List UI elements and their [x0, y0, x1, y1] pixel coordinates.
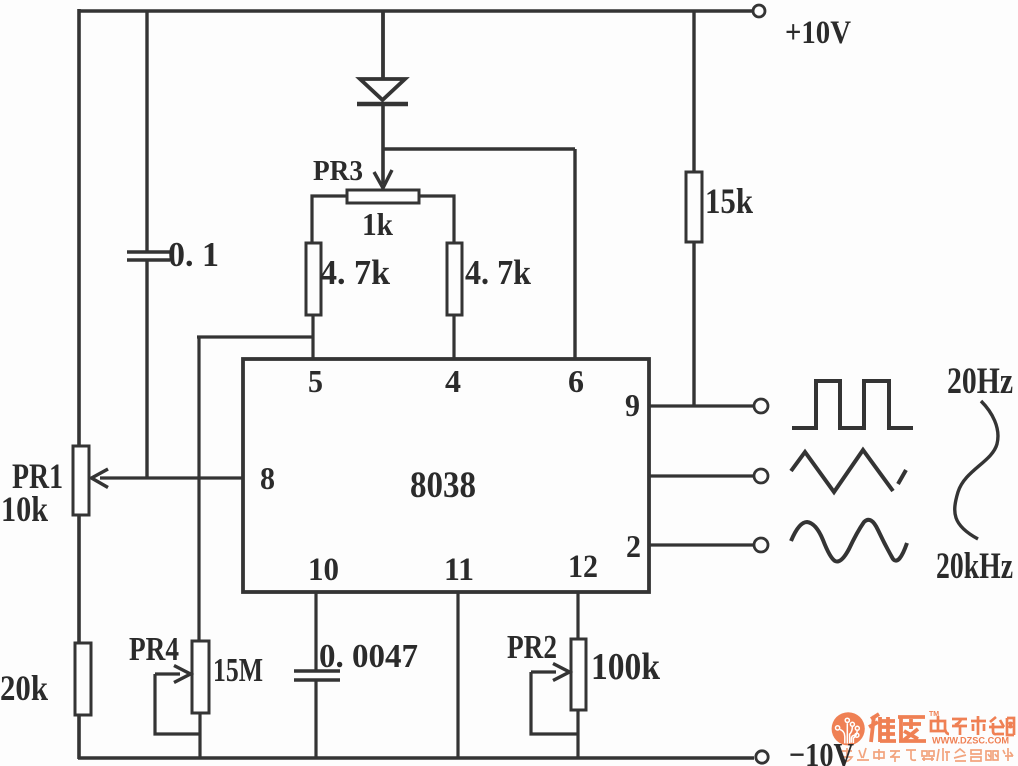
svg-text:8038: 8038: [410, 465, 476, 506]
potentiometer PR4 body: [192, 641, 209, 713]
svg-text:+10V: +10V: [785, 15, 851, 51]
capacitor 0.0047: [294, 671, 340, 680]
svg-text:20Hz: 20Hz: [947, 361, 1013, 402]
watermark 电子市场网 fake glyphs: [931, 716, 1014, 735]
wire pin 2 output: [649, 543, 754, 546]
square wave symbol: [792, 381, 913, 428]
watermark logo circuit traces: [840, 723, 857, 743]
svg-text:11: 11: [444, 552, 474, 588]
wire pin 8 to PR1 wiper: [100, 476, 243, 479]
resistor 4.7k right: [447, 243, 462, 315]
watermark slogan fake glyphs: [842, 748, 1013, 762]
wire 0.0047 bottom lead: [314, 680, 317, 759]
wire triangle output: [649, 474, 754, 477]
svg-text:8: 8: [260, 460, 275, 496]
wire 0.1 capacitor top lead: [145, 11, 148, 251]
svg-text:0. 1: 0. 1: [168, 235, 219, 274]
sine wave symbol: [791, 520, 907, 562]
potentiometer PR2 body: [571, 639, 586, 710]
terminal triangle wave output: [754, 469, 768, 483]
frequency range brace curve: [955, 401, 998, 539]
terminal sine wave output: [754, 538, 768, 552]
PR1 wiper arrow: [92, 469, 109, 488]
wire PR4 bottom lead: [198, 713, 201, 759]
svg-text:15k: 15k: [705, 181, 753, 221]
resistor 20k: [75, 643, 91, 715]
watermark 维库 fake glyphs: [869, 714, 926, 742]
wire PR3 left lead: [312, 196, 347, 243]
svg-text:PR2: PR2: [507, 629, 557, 666]
wire bottom -10V rail: [78, 756, 754, 760]
svg-text:15M: 15M: [213, 652, 263, 689]
diode D1: [357, 79, 408, 104]
svg-text:PR4: PR4: [129, 631, 179, 668]
svg-text:5: 5: [308, 363, 323, 399]
wire top +10V rail: [78, 9, 752, 13]
svg-text:12: 12: [568, 549, 598, 585]
svg-text:100k: 100k: [591, 646, 661, 688]
svg-text:10k: 10k: [1, 489, 48, 529]
wire diode anode drop: [381, 11, 385, 80]
wire node to pin6 horizontal: [383, 147, 575, 150]
wire pin 6 vertical: [573, 149, 576, 360]
svg-text:0. 0047: 0. 0047: [319, 638, 418, 675]
resistor 4.7k left: [306, 243, 321, 315]
triangle wave symbol: [791, 450, 906, 492]
PR2 wiper arrow and strap: [531, 672, 578, 734]
wire pin 10 to capacitor: [314, 592, 317, 670]
wire left rail vertical: [77, 9, 81, 759]
svg-text:2: 2: [626, 528, 641, 564]
svg-text:−10V: −10V: [789, 737, 854, 766]
op-amp U1 8038 IC body: [243, 359, 649, 592]
wire 0.1 capacitor bottom lead: [145, 260, 148, 478]
svg-text:4: 4: [445, 363, 461, 399]
resistor 15k: [686, 11, 702, 406]
watermark logo circle: [832, 712, 865, 745]
svg-text:20k: 20k: [0, 668, 48, 708]
svg-text:9: 9: [625, 387, 640, 423]
svg-text:6: 6: [568, 363, 584, 399]
svg-text:20kHz: 20kHz: [936, 546, 1013, 587]
wire pin 5 vertical: [311, 315, 314, 360]
wire pin 11 vertical: [456, 592, 459, 759]
wire PR4 branch to pin5 node horizontal: [197, 335, 313, 338]
potentiometer PR1 body: [73, 446, 89, 515]
wire pin 12 to PR2: [576, 592, 579, 639]
PR2 arrowhead: [553, 664, 570, 681]
terminal square wave output: [754, 399, 768, 413]
terminal -10V: [756, 751, 768, 763]
wire pin 9 output: [649, 404, 754, 407]
svg-text:4. 7k: 4. 7k: [465, 253, 531, 292]
wire PR3 right lead: [419, 196, 454, 243]
svg-text:4. 7k: 4. 7k: [320, 253, 391, 292]
terminal +10V: [753, 5, 765, 17]
PR3 wiper arrow: [374, 170, 392, 188]
wire pin 4 vertical: [452, 315, 455, 360]
PR4 wiper arrow and strap: [155, 674, 200, 734]
svg-text:PR3: PR3: [313, 156, 363, 187]
wire PR2 bottom lead: [576, 710, 579, 759]
svg-text:1k: 1k: [362, 206, 393, 242]
PR4 arrowhead: [174, 666, 191, 683]
svg-text:WWW.DZSC.COM: WWW.DZSC.COM: [932, 736, 1009, 746]
watermark logo pads: [836, 718, 860, 737]
capacitor 0.1: [127, 252, 170, 260]
wire diode cathode to PR3 arrow: [381, 104, 385, 184]
wire PR4 branch vertical: [197, 337, 200, 642]
svg-text:10: 10: [308, 552, 339, 588]
potentiometer PR3 body: [347, 190, 419, 203]
